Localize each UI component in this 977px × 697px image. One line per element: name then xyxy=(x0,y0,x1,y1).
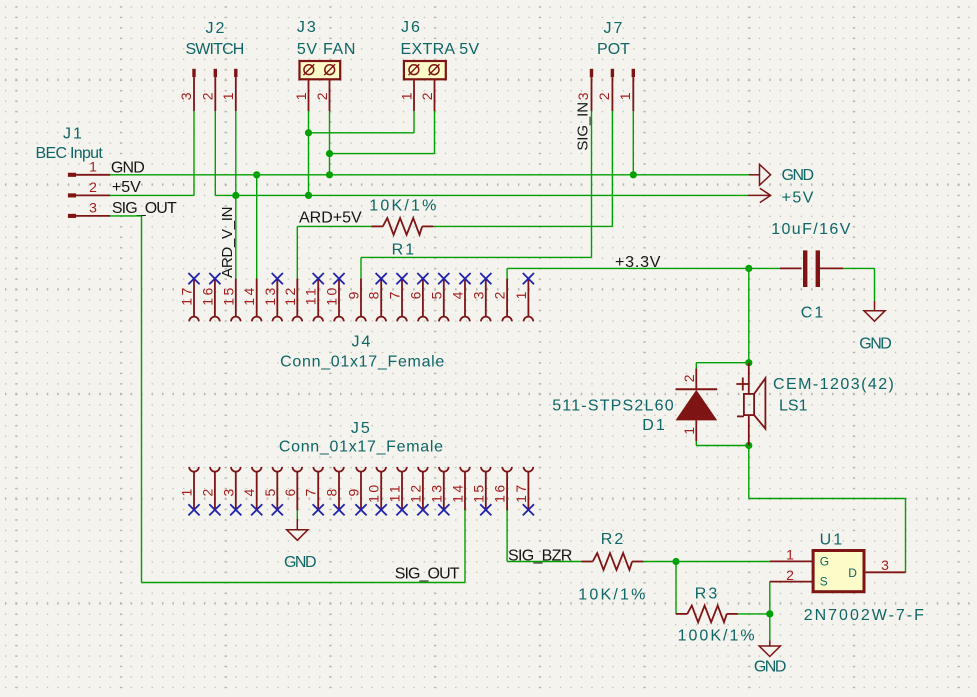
wire SIG_OUT from J1 pin3 xyxy=(110,215,142,217)
svg-text:SIG_OUT: SIG_OUT xyxy=(395,566,460,583)
J3 pin number 2 xyxy=(314,92,330,100)
wire J3 pin2 drop xyxy=(329,111,331,175)
wire D1 cathode branch xyxy=(696,363,749,369)
wire D1 anode branch xyxy=(696,441,749,446)
svg-text:1: 1 xyxy=(293,92,309,100)
svg-text:+5V: +5V xyxy=(112,179,141,196)
svg-text:CEM-1203(42): CEM-1203(42) xyxy=(773,376,895,393)
diode D1 xyxy=(676,369,718,442)
net label ARD+5V xyxy=(299,210,362,227)
connector J5 pin 4 (no connect) xyxy=(241,467,262,516)
svg-text:9: 9 xyxy=(346,291,362,299)
svg-text:3: 3 xyxy=(575,92,591,100)
svg-text:3: 3 xyxy=(89,199,97,215)
wire SIG_BZR from J5 pin16 xyxy=(506,510,508,562)
ground label GND (C1) xyxy=(859,336,891,353)
wire R2 to U1 gate xyxy=(643,561,770,563)
wire J6 pin2 riser xyxy=(434,111,436,154)
svg-text:2: 2 xyxy=(596,92,612,100)
connector J5 pin 16 xyxy=(492,467,512,511)
svg-text:+3.3V: +3.3V xyxy=(615,254,661,271)
connector J4 pin 17 (no connect) xyxy=(179,273,200,321)
connector J5 reference label xyxy=(351,420,372,437)
connector J4 pin 4 (no connect) xyxy=(450,273,471,321)
svg-text:R3: R3 xyxy=(695,586,719,603)
connector J7 pin 3 xyxy=(591,77,593,111)
U1 pin 2 (source) xyxy=(770,581,813,583)
U1 gate label G xyxy=(820,554,829,568)
connector J7 pin 1 xyxy=(632,77,634,111)
J3 screw terminal 2 xyxy=(324,64,335,75)
J1 pin number 3 xyxy=(89,199,97,215)
svg-text:2N7002W-7-F: 2N7002W-7-F xyxy=(804,607,926,624)
R3 value 100K/1% xyxy=(678,627,757,644)
svg-text:D: D xyxy=(848,566,857,580)
connector J5 pin 3 (no connect) xyxy=(220,467,241,516)
ground label GND (R3) xyxy=(754,658,786,675)
wire GND bus xyxy=(110,174,749,176)
svg-text:GND: GND xyxy=(111,159,144,176)
J2 pin number 2 xyxy=(199,92,215,100)
svg-text:2: 2 xyxy=(786,567,794,583)
connector J3 body xyxy=(300,61,341,79)
connector J4 pin 1 (no connect) xyxy=(513,273,534,321)
svg-text:13: 13 xyxy=(262,285,278,306)
svg-text:SWITCH: SWITCH xyxy=(185,41,243,58)
junction R2 / R3 branch xyxy=(672,558,679,565)
ground symbol (J5 pin6) xyxy=(287,519,308,541)
svg-text:12: 12 xyxy=(407,482,423,503)
svg-text:10: 10 xyxy=(324,285,340,306)
connector J2 pin 3 square xyxy=(192,69,195,77)
wire C1 to GND symbol xyxy=(843,268,875,301)
connector J5 pin 9 (no connect) xyxy=(346,467,367,516)
junction +3.3V / C1 xyxy=(745,265,752,272)
svg-text:S: S xyxy=(820,575,828,589)
wire ARD_V_IN (J2 pin1 to J4 pin15) xyxy=(235,111,237,279)
svg-text:10K/1%: 10K/1% xyxy=(578,587,647,604)
wire U1 source drop xyxy=(769,582,771,614)
connector J2 reference label xyxy=(206,20,227,37)
connector J5 pin 13 (no connect) xyxy=(428,467,449,516)
C1 reference label xyxy=(801,304,825,321)
connector J4 pin 11 (no connect) xyxy=(303,273,324,321)
svg-text:13: 13 xyxy=(428,482,444,503)
svg-text:GND: GND xyxy=(782,167,814,184)
resistor R1 xyxy=(372,218,434,235)
J2 pin number 1 xyxy=(220,92,236,100)
connector J2 pin 3 xyxy=(193,77,195,111)
wire J7 pin3 drop (SIG_IN3) xyxy=(591,111,593,257)
global label +5V text xyxy=(782,189,815,206)
svg-text:6: 6 xyxy=(407,291,423,299)
connector J5 pin 11 (no connect) xyxy=(387,467,408,516)
svg-text:15: 15 xyxy=(470,482,486,503)
svg-text:+5V: +5V xyxy=(782,189,815,206)
J1 pin number 2 xyxy=(89,179,97,195)
wire J4 pin2 riser xyxy=(506,268,508,278)
connector J2 pin 1 square xyxy=(234,69,237,77)
U1 value 2N7002W-7-F xyxy=(804,607,926,624)
svg-text:SIG_IN: SIG_IN xyxy=(575,102,592,151)
net label SIG_IN (vertical) xyxy=(575,102,592,151)
wire SIG_IN3 horizontal xyxy=(361,256,592,258)
D1 value 511-STPS2L60 xyxy=(552,397,675,414)
connector J1 pin 3 xyxy=(76,215,110,217)
wire J2 pin3 riser xyxy=(193,111,195,195)
svg-text:2: 2 xyxy=(199,488,215,496)
connector J3 value 5V FAN xyxy=(297,41,356,58)
connector J4 pin 10 (no connect) xyxy=(324,273,345,321)
J7 pin number 2 xyxy=(596,92,612,100)
svg-text:3: 3 xyxy=(470,291,486,299)
net label GND xyxy=(111,159,144,176)
wire SIG_IN3 to J4 pin9 xyxy=(360,257,362,278)
connector J5 pin 17 (no connect) xyxy=(513,467,534,516)
net label +3.3V xyxy=(615,254,661,271)
connector J1 reference label xyxy=(63,126,84,143)
connector J5 pin 5 (no connect) xyxy=(262,467,283,516)
U1 pin number 3 xyxy=(881,557,889,573)
connector J4 value Conn_01x17_Female xyxy=(280,354,445,371)
connector J5 pin 7 (no connect) xyxy=(303,467,324,516)
wire branch to J6 pin2 xyxy=(330,153,435,155)
wire branch to J6 pin1 xyxy=(309,132,415,134)
svg-text:11: 11 xyxy=(387,483,403,503)
junction J3 pin2 / J6 branch xyxy=(326,150,333,157)
junction J3 pin1 / J6 branch xyxy=(305,129,312,136)
connector J2 value SWITCH xyxy=(185,41,243,58)
wire J4 pin14 to GND bus xyxy=(256,175,258,279)
net label SIG_BZR xyxy=(508,547,572,564)
J6 screw terminal 1 xyxy=(409,64,420,75)
net label +5V xyxy=(112,179,141,196)
svg-text:1: 1 xyxy=(513,291,529,299)
wire +3.3V to C1 xyxy=(749,267,780,269)
wire J2 pin2 riser xyxy=(214,111,216,195)
J1 pin number 1 xyxy=(89,158,97,174)
resistor R2 xyxy=(581,553,643,570)
connector J5 pin 12 (no connect) xyxy=(407,467,428,516)
svg-text:8: 8 xyxy=(366,291,382,299)
connector J6 reference label xyxy=(401,19,422,36)
U1 drain label D xyxy=(848,566,857,580)
connector J4 pin 2 xyxy=(492,279,512,322)
svg-text:Conn_01x17_Female: Conn_01x17_Female xyxy=(280,354,445,371)
svg-text:15: 15 xyxy=(220,285,236,306)
connector J5 pin 10 (no connect) xyxy=(366,467,387,516)
svg-text:J4: J4 xyxy=(352,334,373,351)
ground symbol (C1) xyxy=(864,301,885,321)
svg-text:8: 8 xyxy=(324,488,340,496)
svg-text:1: 1 xyxy=(179,488,195,496)
wire junction to ground xyxy=(769,614,771,640)
wire +5V from J1 to switch xyxy=(110,194,194,196)
J7 pin number 3 xyxy=(575,92,591,100)
capacitor C1 xyxy=(780,250,843,287)
J6 screw terminal 2 xyxy=(429,64,440,75)
wire R1 to J7 pin2 xyxy=(433,225,612,227)
connector J3 pin 1 xyxy=(308,80,310,111)
C1 value 10uF/16V xyxy=(771,221,852,238)
junction +5V / ARD_V_IN xyxy=(232,192,239,199)
svg-text:SIG_BZR: SIG_BZR xyxy=(508,547,572,564)
J3 screw terminal 1 xyxy=(303,64,314,75)
connector J2 pin 2 xyxy=(214,77,216,111)
svg-text:2: 2 xyxy=(314,92,330,100)
svg-text:2: 2 xyxy=(492,291,508,299)
LS1 reference label xyxy=(779,397,808,414)
svg-text:1: 1 xyxy=(617,92,633,100)
net label SIG_OUT (bottom) xyxy=(395,566,460,583)
svg-text:SIG_OUT: SIG_OUT xyxy=(112,200,177,217)
svg-text:9: 9 xyxy=(346,488,362,496)
LS1 plus mark xyxy=(736,378,749,391)
wire SIG_OUT to J5 pin14 xyxy=(464,510,466,583)
svg-text:1: 1 xyxy=(399,92,415,100)
svg-text:D1: D1 xyxy=(642,417,666,434)
wire J3 pin1 drop xyxy=(308,111,310,195)
wire J5 pin6 to ground xyxy=(296,510,298,519)
svg-text:7: 7 xyxy=(387,291,403,299)
connector J7 pin 2 xyxy=(611,77,613,111)
wire R3 to U1 source xyxy=(738,613,770,615)
svg-text:1: 1 xyxy=(220,92,236,100)
svg-text:2: 2 xyxy=(199,92,215,100)
connector J2 pin 1 xyxy=(235,77,237,111)
J3 pin number 1 xyxy=(293,92,309,100)
svg-text:GND: GND xyxy=(859,336,891,353)
LS1 value CEM-1203(42) xyxy=(773,376,895,393)
svg-text:2: 2 xyxy=(89,179,97,195)
svg-text:J1: J1 xyxy=(63,126,84,143)
U1 pin number 1 xyxy=(786,547,794,563)
connector J1 pin 1 xyxy=(76,174,110,176)
J6 pin number 2 xyxy=(419,92,435,100)
svg-text:10K/1%: 10K/1% xyxy=(369,198,438,215)
connector J7 pin 3 square xyxy=(590,69,593,77)
connector J7 value POT xyxy=(597,41,630,58)
connector J3 pin 2 xyxy=(329,80,331,111)
junction J3 pin2 / GND bus xyxy=(326,171,333,178)
connector J4 pin 6 (no connect) xyxy=(407,273,428,321)
wire SIG_OUT left riser xyxy=(141,216,143,583)
U1 pin 1 (gate) xyxy=(770,560,813,562)
svg-text:1: 1 xyxy=(786,547,794,563)
connector J4 pin 3 (no connect) xyxy=(470,273,491,321)
D1 pin number 1 xyxy=(681,427,697,435)
connector J7 pin 1 square xyxy=(632,69,635,77)
svg-text:U1: U1 xyxy=(820,532,844,549)
svg-text:14: 14 xyxy=(241,285,257,306)
R2 reference label xyxy=(601,531,625,548)
connector J4 pin 14 xyxy=(241,279,261,322)
connector J5 value Conn_01x17_Female xyxy=(279,439,444,456)
svg-text:1: 1 xyxy=(89,158,97,174)
svg-text:10uF/16V: 10uF/16V xyxy=(771,221,852,238)
connector J4 pin 16 (no connect) xyxy=(199,273,220,321)
connector J3 reference label xyxy=(297,19,318,36)
connector J5 pin 15 (no connect) xyxy=(470,467,491,516)
connector J4 pin 8 (no connect) xyxy=(366,273,387,321)
connector J6 pin 1 xyxy=(413,80,415,111)
net label ARD_V_IN (vertical) xyxy=(219,207,236,278)
wire SIG_OUT bottom row xyxy=(142,582,466,584)
svg-text:17: 17 xyxy=(513,482,529,503)
transistor U1 reference label xyxy=(820,532,844,549)
connector J2 pin 2 square xyxy=(214,69,217,77)
connector J5 pin 2 (no connect) xyxy=(199,467,220,516)
svg-text:4: 4 xyxy=(241,488,257,496)
wire LS1 bottom to U1 drain xyxy=(749,446,906,573)
svg-text:EXTRA 5V: EXTRA 5V xyxy=(401,41,480,58)
buzzer LS1 xyxy=(744,363,766,446)
svg-text:16: 16 xyxy=(199,285,215,306)
connector J6 body xyxy=(404,61,446,79)
connector J7 pin 2 square xyxy=(611,69,614,77)
svg-text:3: 3 xyxy=(881,557,889,573)
connector J4 pin 7 (no connect) xyxy=(387,273,408,321)
connector J5 pin 1 (no connect) xyxy=(179,467,200,516)
connector J1 pin 2 xyxy=(76,194,110,196)
connector J4 pin 12 xyxy=(282,279,302,322)
ground symbol (R3) xyxy=(759,640,780,656)
svg-text:LS1: LS1 xyxy=(779,397,808,414)
wire +3.3V drop to LS1 xyxy=(748,268,750,362)
wire +3.3V row xyxy=(507,267,749,269)
global label GND arrow xyxy=(749,164,771,185)
J7 pin number 1 xyxy=(617,92,633,100)
svg-text:511-STPS2L60: 511-STPS2L60 xyxy=(552,397,675,414)
svg-text:10: 10 xyxy=(366,482,382,503)
svg-text:ARD+5V: ARD+5V xyxy=(299,210,362,227)
svg-text:17: 17 xyxy=(179,285,195,306)
svg-text:5: 5 xyxy=(428,291,444,299)
connector J4 pin 15 xyxy=(220,279,240,322)
connector J1 pin 1 square xyxy=(68,173,76,177)
connector J6 value EXTRA 5V xyxy=(401,41,480,58)
ground label GND (J5 pin6) xyxy=(284,554,316,571)
D1 reference label xyxy=(642,417,666,434)
svg-text:3: 3 xyxy=(220,488,236,496)
junction GND / J7 pin1 xyxy=(630,171,637,178)
R3 reference label xyxy=(695,586,719,603)
svg-text:Conn_01x17_Female: Conn_01x17_Female xyxy=(279,439,444,456)
svg-text:3: 3 xyxy=(178,92,194,100)
svg-text:11: 11 xyxy=(303,286,319,306)
connector J4 pin 9 xyxy=(346,279,366,322)
svg-text:POT: POT xyxy=(597,41,630,58)
svg-text:ARD_V_IN: ARD_V_IN xyxy=(219,207,236,278)
svg-text:2: 2 xyxy=(681,374,697,382)
D1 pin number 2 xyxy=(681,374,697,382)
connector J5 pin 14 xyxy=(450,467,470,511)
svg-text:14: 14 xyxy=(450,482,466,503)
connector J1 value BEC Input xyxy=(36,145,104,162)
svg-text:6: 6 xyxy=(282,488,298,496)
wire R2-R3 branch drop xyxy=(675,562,677,614)
svg-text:C1: C1 xyxy=(801,304,825,321)
svg-text:16: 16 xyxy=(492,482,508,503)
J2 pin number 3 xyxy=(178,92,194,100)
svg-text:7: 7 xyxy=(303,488,319,496)
global label +5V arrow xyxy=(748,188,770,202)
wire SIG_BZR row xyxy=(507,561,581,563)
LS1 minus mark xyxy=(737,415,744,417)
svg-text:R2: R2 xyxy=(601,531,625,548)
net label SIG_OUT xyxy=(112,200,177,217)
wire J7 pin1 to GND bus xyxy=(632,111,634,175)
wire ARD+5V (J4 pin12 riser) xyxy=(296,226,298,278)
wire switched +5V bus xyxy=(215,194,748,196)
R1 value 10K/1% xyxy=(369,198,438,215)
svg-text:J5: J5 xyxy=(351,420,372,437)
U1 pin number 2 xyxy=(786,567,794,583)
wire J6 pin1 riser xyxy=(413,111,415,133)
connector J1 pin 3 square xyxy=(68,214,76,218)
svg-text:5: 5 xyxy=(262,488,278,496)
wire J7 pin2 drop xyxy=(611,111,613,226)
svg-text:J6: J6 xyxy=(401,19,422,36)
connector J4 pin 13 (no connect) xyxy=(262,273,283,321)
wire ARD+5V to R1 xyxy=(297,225,371,227)
R1 reference label xyxy=(392,242,416,259)
connector J4 reference label xyxy=(352,334,373,351)
transistor U1 body xyxy=(813,551,864,592)
junction R3 / U1 source / GND xyxy=(766,610,773,617)
connector J7 reference label xyxy=(604,20,625,37)
svg-text:100K/1%: 100K/1% xyxy=(678,627,757,644)
junction GND / J4 pin14 xyxy=(253,171,260,178)
resistor R3 xyxy=(676,606,738,623)
connector J6 pin 2 xyxy=(434,80,436,111)
svg-text:J2: J2 xyxy=(206,20,227,37)
connector J1 pin 2 square xyxy=(68,193,76,197)
junction J3 pin1 / +5V bus xyxy=(305,192,312,199)
svg-text:12: 12 xyxy=(282,285,298,306)
global label GND text xyxy=(782,167,814,184)
R2 value 10K/1% xyxy=(578,587,647,604)
connector J4 pin 5 (no connect) xyxy=(428,273,449,321)
U1 source label S xyxy=(820,575,828,589)
svg-text:5V FAN: 5V FAN xyxy=(297,41,356,58)
U1 pin 3 (drain) xyxy=(866,571,906,573)
J6 pin number 1 xyxy=(399,92,415,100)
connector J5 pin 8 (no connect) xyxy=(324,467,345,516)
svg-text:2: 2 xyxy=(419,92,435,100)
svg-text:R1: R1 xyxy=(392,242,416,259)
svg-text:GND: GND xyxy=(284,554,316,571)
svg-text:4: 4 xyxy=(450,291,466,299)
junction LS1 top / D1 xyxy=(745,359,752,366)
svg-text:GND: GND xyxy=(754,658,786,675)
connector J5 pin 6 xyxy=(282,467,302,511)
svg-text:J7: J7 xyxy=(604,20,625,37)
svg-text:1: 1 xyxy=(681,427,697,435)
junction LS1 bottom / D1 xyxy=(745,442,752,449)
svg-text:J3: J3 xyxy=(297,19,318,36)
svg-text:G: G xyxy=(820,554,829,568)
